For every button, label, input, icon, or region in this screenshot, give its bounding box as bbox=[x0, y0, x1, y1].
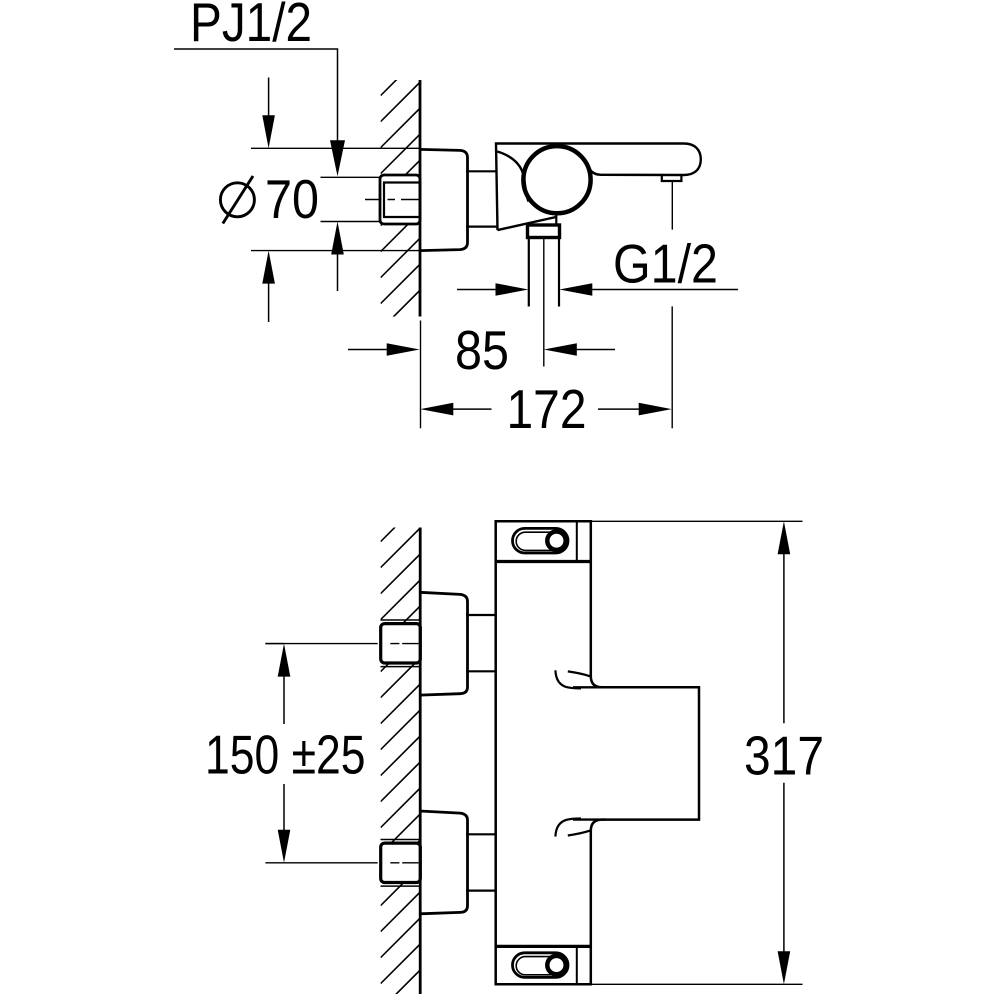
bottom slot circle bbox=[547, 956, 565, 974]
svg-text:172: 172 bbox=[507, 378, 587, 440]
150 dimension extension stubs bbox=[265, 643, 283, 645]
spout outlet tab bbox=[662, 175, 682, 182]
bottom nut centerline bbox=[265, 862, 418, 864]
mixer body outline (top view) bbox=[496, 144, 701, 231]
dia70 extension line top bbox=[251, 147, 420, 149]
dia70 extension line bottom bbox=[251, 250, 420, 252]
top cap divider bbox=[576, 521, 578, 561]
bottom slot inner bbox=[516, 957, 564, 975]
shower hose lines bbox=[528, 238, 530, 307]
svg-text:85: 85 bbox=[455, 319, 509, 381]
spout leader segment bbox=[671, 181, 673, 230]
thread extension line top bbox=[321, 176, 380, 178]
top escutcheon (bottom view) bbox=[420, 592, 468, 695]
thermostat body (bottom view) bbox=[496, 521, 699, 984]
escutcheon (top view) bbox=[420, 149, 468, 250]
317 extension lines bbox=[591, 520, 803, 522]
bottom mounting nut thin lines bbox=[381, 839, 420, 841]
PJ1/2 leader arrow bbox=[330, 140, 345, 176]
bottom slot outer bbox=[513, 953, 569, 978]
85 dimension bbox=[348, 349, 390, 351]
top connection pipe (bottom view) bbox=[466, 614, 497, 616]
svg-text:317: 317 bbox=[744, 725, 824, 787]
top swoosh bbox=[555, 670, 581, 688]
shower hose nut (top view) bbox=[528, 225, 560, 238]
svg-text:70: 70 bbox=[265, 168, 319, 230]
bottom mounting nut bbox=[381, 843, 421, 882]
top cap line bbox=[495, 560, 593, 563]
svg-text:PJ1/2: PJ1/2 bbox=[190, 0, 312, 53]
wall extension line bbox=[420, 321, 422, 429]
dia70 arrow up bbox=[268, 282, 270, 322]
top mounting nut thin lines bbox=[381, 619, 420, 621]
thread extension line bottom bbox=[321, 221, 380, 223]
top slot inner bbox=[516, 532, 564, 550]
wall surface line (bottom view) bbox=[419, 528, 422, 995]
G1/2 dimension arrows bbox=[457, 289, 497, 291]
cartridge circle bbox=[523, 146, 590, 213]
top nut centerline bbox=[265, 643, 418, 645]
spout extension line bbox=[671, 306, 673, 428]
svg-text:150 ±25: 150 ±25 bbox=[205, 724, 366, 786]
body inner curve bbox=[497, 152, 528, 202]
threaded nipple (top view) bbox=[380, 175, 420, 224]
dia70 arrow down bbox=[268, 78, 270, 118]
top slot outer bbox=[513, 528, 569, 553]
bottom swoosh bbox=[555, 819, 581, 837]
nipple centerline bbox=[365, 199, 420, 201]
thread arrow up bbox=[337, 254, 339, 291]
body bottom slant bbox=[498, 217, 557, 230]
172 dimension bbox=[452, 408, 492, 410]
dia symbol bbox=[220, 176, 254, 224]
connecting pipe (top view) bbox=[466, 170, 497, 172]
top mounting nut bbox=[381, 624, 421, 663]
150 dimension bbox=[278, 644, 291, 677]
hose center extension line bbox=[543, 238, 545, 367]
protrusion top edge extension bbox=[573, 686, 606, 688]
bottom cap divider bbox=[576, 946, 578, 984]
bottom connection pipe (bottom view) bbox=[466, 833, 497, 835]
svg-text:G1/2: G1/2 bbox=[613, 233, 718, 295]
317 dimension bbox=[778, 521, 791, 554]
protrusion bottom edge extension bbox=[573, 818, 606, 820]
bottom cap line bbox=[495, 945, 593, 948]
PJ1/2 leader line bbox=[174, 49, 338, 143]
bottom escutcheon (bottom view) bbox=[420, 811, 468, 914]
wall surface line (top view) bbox=[419, 80, 422, 317]
top slot circle bbox=[547, 532, 565, 550]
